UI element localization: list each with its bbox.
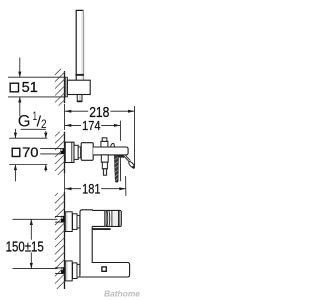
top inlet ring: [77, 215, 80, 228]
outlet stub below body: [101, 155, 108, 175]
label square-70: [12, 145, 38, 161]
union nut (middle): [74, 145, 78, 159]
handle base bar: [92, 228, 111, 230]
valve body: [81, 143, 93, 161]
shower hose (spiral): [114, 155, 118, 182]
bottom inlet escutcheon: [65, 261, 72, 281]
label G 1/2: [18, 110, 47, 131]
top inlet nut: [73, 214, 78, 230]
top inlet pipe: [55, 216, 65, 223]
mixer body bar: [93, 147, 128, 155]
small arc on body top: [111, 143, 115, 146]
bottom inlet pipe: [55, 267, 65, 274]
handle cylinder: [92, 210, 121, 226]
bottom inlet nut: [73, 263, 78, 279]
wall hatching (top drawing): [55, 69, 65, 106]
ext line bottom: [8, 96, 64, 98]
dim 218: [65, 110, 88, 112]
svg-text:150±15: 150±15: [6, 239, 44, 255]
svg-text:Bathome: Bathome: [104, 288, 140, 298]
hose connector stub below bracket: [77, 95, 82, 102]
ring: [78, 147, 80, 158]
lever pivot mark: [118, 155, 124, 158]
arrows right pair: [45, 131, 47, 138]
watermark: [104, 288, 141, 299]
supply pipe in wall (middle): [40, 148, 64, 154]
wall (bottom): [64, 192, 66, 289]
wall (top drawing): [64, 71, 66, 103]
bracket escutcheon plate 51mm (gray sliver): [65, 77, 67, 97]
wall hatching (bottom): [55, 193, 65, 289]
arrows left pair: [14, 129, 16, 138]
dim 174: [65, 124, 81, 126]
wall (middle): [64, 132, 66, 174]
spout outlet square: [102, 267, 106, 271]
arrow bottom: [19, 97, 21, 116]
svg-text:181: 181: [82, 182, 100, 197]
bracket body: [67, 80, 90, 94]
lever rod (closed position): [119, 156, 121, 182]
escutcheon (middle): [65, 142, 74, 162]
arrow top: [19, 58, 21, 78]
svg-text:70: 70: [22, 145, 39, 161]
label square-51: [10, 80, 38, 96]
spout (L shape): [80, 227, 130, 278]
left extension line (wall face): [64, 104, 66, 130]
bottom inlet ring: [77, 264, 80, 277]
lever grip: [128, 161, 135, 169]
hand shower stick: [76, 10, 83, 80]
mixer body (vertical): [80, 210, 92, 277]
svg-text:51: 51: [22, 80, 38, 96]
lever connector (open position): [124, 156, 130, 162]
svg-text:174: 174: [82, 118, 100, 133]
diverter knob: [101, 141, 108, 147]
shower joint nut: [75, 74, 84, 76]
wall hatching (middle): [55, 132, 65, 175]
svg-text:G: G: [18, 112, 31, 131]
top inlet escutcheon: [65, 212, 72, 232]
ext line top: [8, 76, 64, 78]
